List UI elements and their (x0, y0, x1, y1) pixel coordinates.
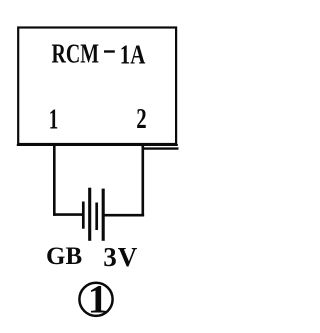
label GB (46, 243, 82, 270)
wire stub right from pin2 node (142, 147, 179, 149)
wire pin2 vertical (142, 145, 145, 216)
wire pin1 to battery horizontal (53, 213, 84, 216)
label 3V (103, 242, 138, 272)
svg-text:3V: 3V (103, 242, 138, 272)
svg-text:GB: GB (46, 243, 82, 270)
pin 1 label (49, 105, 59, 136)
svg-text:1A: 1A (120, 39, 146, 70)
figure number 1 circled (79, 276, 112, 321)
svg-text:RCM: RCM (52, 39, 100, 69)
svg-text:2: 2 (136, 104, 146, 135)
wire battery to pin2 horizontal (104, 214, 144, 217)
wire pin1 vertical (53, 145, 56, 216)
label RCM-1A (52, 39, 146, 70)
IC module U1 box RCM-1A (17, 28, 178, 145)
pin 2 label (136, 104, 146, 135)
svg-text:1: 1 (88, 276, 108, 321)
battery GB (83, 188, 103, 241)
svg-text:1: 1 (49, 105, 59, 136)
